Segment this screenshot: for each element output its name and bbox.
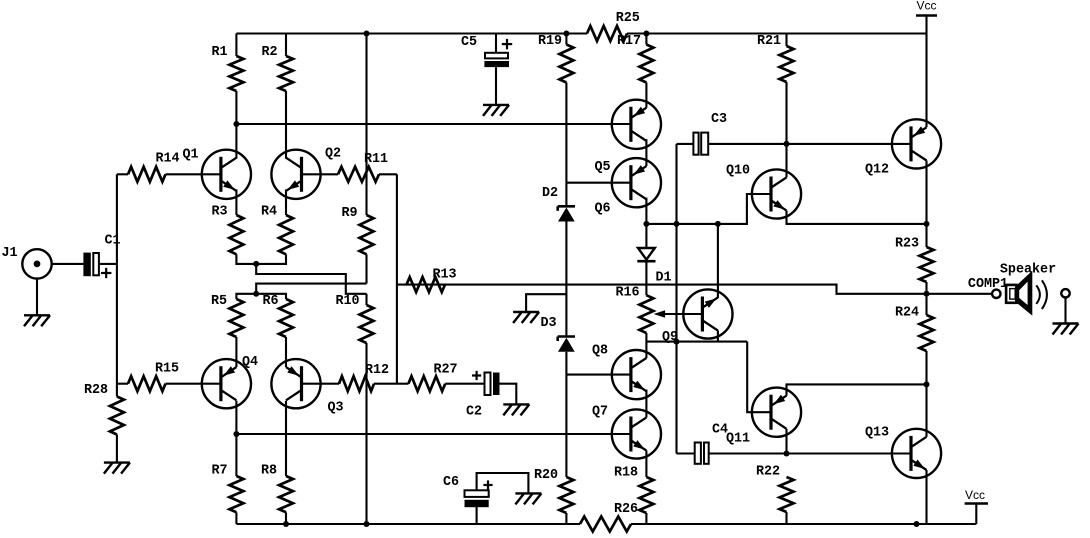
wire column D — [396, 174, 398, 383]
ground below C2 — [503, 404, 529, 415]
wire R7 top lead — [235, 434, 237, 476]
junction row at Q8 collector — [646, 341, 747, 343]
resistor R9 — [341, 206, 373, 254]
svg-text:Q5: Q5 — [594, 160, 610, 175]
junction node top rail / column C — [364, 31, 370, 37]
resistor R15 — [128, 362, 179, 392]
wire R7 to bottom rail — [235, 475, 237, 477]
wire long output row — [397, 285, 992, 294]
transistor Q11 (PNP) — [752, 388, 801, 437]
svg-text:Speaker: Speaker — [1000, 263, 1056, 278]
svg-text:D3: D3 — [540, 316, 556, 331]
wire VAS row to Q10 base riser — [646, 194, 771, 224]
wire R27 to C2 — [445, 383, 484, 385]
resistor R10 — [335, 294, 373, 343]
wire Q3 collector down — [285, 401, 287, 476]
transistor Q8 (NPN) — [612, 350, 661, 399]
resistor R19 — [538, 34, 573, 83]
wire Q3 base to R12 — [302, 383, 340, 385]
resistor R1 — [211, 34, 243, 92]
svg-text:D1: D1 — [655, 271, 671, 286]
wire lower crossover line — [256, 284, 366, 294]
resistor R12 — [339, 363, 389, 391]
svg-text:C2: C2 — [466, 405, 482, 420]
wire R5/R6 connector — [236, 294, 286, 299]
junction node R3/R4 — [253, 261, 259, 267]
svg-text:R6: R6 — [262, 294, 278, 309]
junction node rail/Q13 — [914, 521, 920, 527]
resistor R27 — [397, 363, 458, 392]
transistor Q7 (NPN) — [612, 409, 661, 458]
resistor R23 — [895, 237, 934, 283]
wire R23 ends — [925, 224, 927, 247]
capacitor C6 — [443, 475, 493, 507]
svg-text:Q12: Q12 — [865, 163, 889, 178]
svg-text:R1: R1 — [211, 45, 227, 60]
Vcc bottom power symbol — [965, 488, 988, 524]
junction node R5/R6 — [253, 291, 259, 297]
svg-text:R10: R10 — [335, 294, 359, 309]
ground below C5 — [483, 105, 509, 116]
resistor R20 — [534, 468, 573, 513]
svg-text:R15: R15 — [155, 362, 179, 377]
svg-text:Q1: Q1 — [182, 148, 198, 163]
svg-text:Q13: Q13 — [865, 426, 889, 441]
capacitor C4 — [677, 423, 911, 464]
svg-text:Q4: Q4 — [242, 355, 258, 370]
wire R4 lead — [285, 189, 287, 215]
wire Q9 collector down — [717, 330, 719, 341]
wire R8 to bottom rail — [285, 512, 287, 524]
wire Q8 emitter to Q7 collector — [645, 390, 647, 418]
svg-text:C5: C5 — [461, 35, 477, 50]
transistor Q5 (PNP) — [612, 100, 661, 149]
svg-text:Q11: Q11 — [726, 432, 750, 447]
svg-text:R22: R22 — [756, 465, 780, 480]
wire upper crossover line — [256, 264, 366, 294]
svg-text:R27: R27 — [433, 363, 457, 378]
svg-text:R9: R9 — [341, 206, 357, 221]
wire R10 bottom to bottom rail — [365, 343, 367, 524]
resistor R26 — [580, 502, 638, 532]
wire C5 to ground — [495, 67, 497, 105]
wire C2 to ground — [500, 384, 517, 404]
trimmer wiper arrowhead — [654, 310, 666, 318]
svg-text:R17: R17 — [617, 34, 641, 49]
wire R6 to Q3 emitter — [285, 337, 287, 367]
junction node C4/Q11 collector/R22 — [784, 451, 790, 457]
resistor R28 — [84, 383, 124, 435]
wire R15 to Q4 base — [166, 383, 221, 385]
svg-text:D2: D2 — [542, 186, 558, 201]
wire C3C4 coupling column — [675, 144, 677, 454]
wire terminal to ground — [1064, 298, 1066, 324]
resistor R8 — [261, 464, 293, 513]
wire R22 to bottom rail — [785, 512, 787, 524]
svg-text:R12: R12 — [365, 363, 389, 378]
wire Q6 base from D2 node — [566, 182, 631, 184]
svg-text:R7: R7 — [211, 464, 227, 479]
wire Q5 collector to Q6 emitter — [645, 139, 647, 166]
wire R11 to column D — [379, 173, 397, 175]
wire J1 to ground — [36, 279, 38, 316]
junction node C3C4 column lower — [674, 339, 680, 345]
wire Q11 emitter to R24 node — [787, 384, 927, 395]
wire bottom rail left of R26 — [236, 523, 580, 525]
capacitor C1 — [83, 234, 120, 279]
wire C6 top to ground — [477, 473, 529, 493]
resistor R18 — [614, 466, 653, 514]
connector J1 — [1, 246, 51, 279]
wire Q6 collector down — [645, 198, 647, 224]
wire Q2 base to R11 — [302, 173, 339, 175]
wire R3/R4 connector — [236, 254, 286, 264]
ground below R28 — [104, 463, 130, 474]
svg-text:Q7: Q7 — [592, 405, 608, 420]
svg-text:R4: R4 — [261, 205, 277, 220]
svg-text:R5: R5 — [211, 294, 227, 309]
wire Q13 collector — [925, 384, 927, 436]
svg-text:R3: R3 — [211, 205, 227, 220]
wire R3 lead — [235, 189, 237, 215]
svg-text:Vcc: Vcc — [916, 0, 936, 13]
wire Q12 base row — [787, 143, 912, 145]
diode D2 — [542, 186, 575, 222]
junction node C3C4 column upper — [674, 221, 680, 227]
svg-text:R2: R2 — [261, 45, 277, 60]
resistor R13 — [407, 268, 457, 293]
transistor Q12 (PNP) — [892, 119, 941, 168]
junction node Q12 collector — [924, 221, 930, 227]
speaker return terminal — [1061, 289, 1069, 297]
transistor Q1 (NPN) — [202, 150, 251, 199]
wire D2 to D3 — [565, 222, 567, 337]
wire Q4 collector down — [235, 401, 237, 434]
transistor Q3 (PNP) — [271, 359, 320, 408]
resistor R6 — [262, 294, 293, 337]
ground below J1 — [24, 315, 50, 326]
svg-text:R20: R20 — [534, 468, 558, 483]
diode D1 — [637, 224, 671, 286]
wire R14 to Q1 base — [166, 173, 221, 175]
resistor R5 — [211, 294, 243, 337]
svg-text:R8: R8 — [261, 464, 277, 479]
wire Q9 base wiper to R16 — [660, 313, 702, 315]
wire riser to Q11 base — [747, 342, 771, 413]
wire R17 to Q5 emitter — [645, 83, 647, 108]
ground below speaker — [1053, 324, 1079, 335]
svg-text:R25: R25 — [616, 11, 640, 26]
resistor R7 — [211, 464, 243, 513]
junction node Q4 collector/row — [233, 431, 239, 437]
wire rail2 (Q5 base bus) — [236, 123, 631, 125]
wire bottom rail right of R26 — [631, 523, 976, 525]
svg-text:C3: C3 — [711, 112, 727, 127]
svg-text:R19: R19 — [538, 34, 562, 49]
svg-text:C6: C6 — [443, 475, 459, 490]
junction node output/R23R24 — [924, 291, 930, 297]
svg-text:R13: R13 — [432, 268, 456, 283]
resistor R16 (bias trimmer) — [615, 285, 653, 333]
junction node rail/R17 — [643, 31, 649, 37]
wire R28 to ground — [116, 435, 118, 463]
wire D3 to R20 — [565, 352, 567, 477]
junction node Q9 emitter row — [715, 221, 721, 227]
Vcc top power symbol — [916, 0, 937, 34]
wire Q7 base row — [236, 433, 631, 435]
svg-text:Q8: Q8 — [592, 344, 608, 359]
wire Q9 emitter up — [717, 224, 719, 298]
svg-text:R14: R14 — [155, 152, 179, 167]
resistor R14 — [128, 152, 180, 182]
transistor Q2 (NPN) — [271, 150, 320, 199]
transistor Q9 (bias, NPN) — [683, 289, 732, 338]
svg-text:R24: R24 — [895, 306, 919, 321]
svg-text:R26: R26 — [614, 502, 638, 517]
svg-text:Q6: Q6 — [594, 202, 610, 217]
diode D3 — [540, 316, 575, 352]
junction node rail/R8 — [283, 521, 289, 527]
ground near D3 — [513, 312, 539, 323]
resistor R17 — [617, 34, 653, 83]
resistor R4 — [261, 205, 293, 255]
transistor Q6 (PNP) — [612, 158, 661, 207]
wire Q12 collector down — [925, 161, 927, 224]
svg-text:R21: R21 — [757, 34, 781, 49]
wire R19 to D2 — [565, 83, 567, 207]
svg-text:J1: J1 — [1, 246, 17, 261]
wire R12 to column D — [374, 383, 397, 385]
junction node Q6 collector row — [643, 221, 649, 227]
wire Q8 base from column E — [566, 374, 631, 376]
wire Q7 emitter to R18 — [645, 451, 647, 478]
speaker SP1 icon — [1000, 263, 1056, 313]
wire R16 to Q8 collector — [645, 333, 647, 358]
wire ground tap from column E — [526, 294, 566, 312]
wire C1 to input column — [99, 263, 117, 265]
transistor Q13 (NPN) — [892, 429, 941, 478]
wire top supply rail left of R25 — [236, 32, 587, 34]
svg-text:R28: R28 — [84, 383, 108, 398]
svg-text:R11: R11 — [364, 152, 388, 167]
resistor R21 — [757, 34, 794, 83]
svg-text:R18: R18 — [614, 466, 638, 481]
capacitor C2 — [466, 371, 500, 420]
resistor R2 — [261, 34, 293, 92]
junction node R24/Q13 collector — [924, 381, 930, 387]
wire R24 ends — [925, 294, 927, 315]
wire column C upper segment — [365, 34, 367, 216]
wire top supply rail right of R25 — [627, 32, 927, 34]
resistor R22 — [756, 465, 794, 513]
wire R20 to bottom rail — [565, 513, 567, 524]
wire input column corner to R14 — [117, 173, 128, 175]
resistor R24 — [895, 306, 934, 352]
wire R15 row — [117, 383, 128, 385]
wire Q10 emitter to output row — [787, 211, 927, 224]
transistor Q10 (NPN) — [752, 169, 801, 218]
capacitor C3 — [677, 112, 787, 155]
wire J1 to C1 — [52, 263, 84, 265]
wire R9 bottom to crossover — [365, 254, 367, 283]
resistor R3 — [211, 205, 243, 255]
svg-text:C1: C1 — [104, 234, 120, 249]
svg-text:R23: R23 — [895, 237, 919, 252]
wire R1 bottom to Q1 collector — [235, 91, 237, 159]
wire R5 to Q4 emitter — [235, 337, 237, 367]
svg-text:R16: R16 — [615, 286, 639, 301]
wire R2 bottom to Q2 collector — [285, 91, 287, 159]
ground right of C6 — [515, 493, 541, 504]
wire input column — [116, 174, 118, 396]
wire Q11 collector to C4 node — [785, 429, 787, 454]
junction node C3/R21 — [784, 141, 790, 147]
wire C6 bottom to rail — [476, 507, 478, 524]
wire R18 to bottom rail — [645, 513, 647, 524]
wire R21 to Q10 collector — [785, 82, 787, 177]
svg-text:Q2: Q2 — [325, 147, 341, 162]
junction node R1/rail2 — [233, 121, 239, 127]
transistor Q4 (PNP) — [202, 359, 251, 408]
resistor R25 — [587, 11, 640, 41]
wire Q13 emitter to bottom rail — [925, 470, 927, 524]
resistor R11 — [338, 152, 388, 182]
svg-text:COMP1: COMP1 — [968, 277, 1008, 292]
wire Q12 emitter to Vcc — [925, 34, 927, 128]
output terminal COMP1 — [968, 277, 1008, 298]
svg-text:Q10: Q10 — [726, 164, 750, 179]
junction node rail/R10 — [364, 521, 370, 527]
svg-text:Vcc: Vcc — [965, 488, 985, 502]
junction node rail/R19 — [563, 31, 569, 37]
svg-text:Q3: Q3 — [327, 401, 343, 416]
capacitor C5 — [461, 34, 512, 68]
